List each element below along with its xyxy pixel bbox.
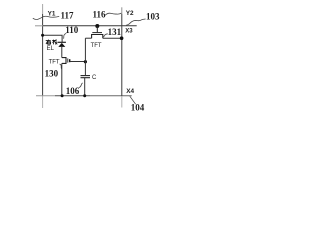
svg-text:X3: X3 — [125, 29, 133, 35]
svg-text:104: 104 — [131, 102, 145, 112]
kanji 機 — [52, 40, 56, 45]
capacitor C top plate — [81, 75, 91, 77]
svg-text:TFT: TFT — [91, 43, 102, 49]
svg-text:106: 106 — [66, 86, 80, 96]
wire TFT131 left terminal down to node — [85, 37, 91, 39]
node dot gate-capacitor-switch — [84, 60, 87, 63]
leader squiggle for 131 — [103, 34, 108, 37]
svg-text:130: 130 — [45, 68, 59, 78]
svg-text:Y1: Y1 — [48, 10, 56, 17]
junction dot capacitor on X4 — [83, 94, 86, 97]
leader squiggle for 117 — [33, 16, 59, 19]
leader squiggle for 116 — [105, 13, 121, 15]
transistor TFT 130 gate tick — [69, 59, 71, 62]
wire X4 bottom line horizontal — [36, 95, 55, 97]
wire Y2 data line vertical — [121, 7, 123, 14]
node junction dot on Y1 — [41, 34, 44, 37]
transistor TFT 131 channel hat — [92, 35, 103, 39]
svg-text:EL: EL — [47, 46, 55, 52]
leader squiggle for 130 — [60, 64, 62, 69]
svg-text:103: 103 — [146, 12, 160, 22]
kanji 有 — [46, 40, 51, 42]
transistor TFT 131 gate junction dot on X3 — [95, 24, 99, 28]
leader line for 104 — [130, 96, 136, 104]
svg-text:131: 131 — [108, 27, 122, 37]
wire TFT130 source to X4 — [61, 63, 63, 96]
svg-text:117: 117 — [61, 10, 75, 20]
capacitor C bottom plate — [81, 77, 91, 79]
wire node vertical (switch TFT to capacitor) — [84, 38, 86, 75]
transistor TFT 130 channel hat — [62, 58, 66, 64]
wire diode anode to TFT130 — [61, 47, 63, 58]
wire capacitor bottom lead to X4 — [84, 78, 86, 96]
wire from Y1 to EL branch — [43, 35, 63, 42]
organic EL diode 110 triangle — [58, 43, 65, 47]
wire TFT131 right terminal to Y2 — [103, 37, 122, 39]
wire X3 scan line horizontal — [35, 25, 43, 27]
svg-text:C: C — [92, 75, 97, 81]
svg-text:116: 116 — [93, 9, 107, 19]
leader squiggle for 103 — [126, 19, 145, 25]
leader squiggle for 110 — [64, 33, 67, 38]
transistor TFT 131 gate bar — [92, 32, 102, 34]
transistor TFT 131 gate lead — [96, 26, 98, 32]
svg-text:110: 110 — [65, 25, 79, 35]
junction dot TFT130 source on X4 — [61, 94, 64, 97]
organic EL diode 110 cathode bar — [58, 42, 66, 43]
junction dot on Y2 — [120, 36, 124, 40]
leader squiggle for 106 — [79, 83, 83, 88]
svg-text:TFT: TFT — [49, 60, 60, 66]
svg-text:Y2: Y2 — [126, 10, 134, 17]
label organic EL kanji — [46, 40, 58, 45]
wire Y1 data line vertical — [42, 4, 44, 14]
wire TFT130 gate to node — [70, 61, 86, 63]
transistor TFT 130 gate bar — [67, 58, 69, 62]
svg-text:X4: X4 — [126, 88, 134, 95]
